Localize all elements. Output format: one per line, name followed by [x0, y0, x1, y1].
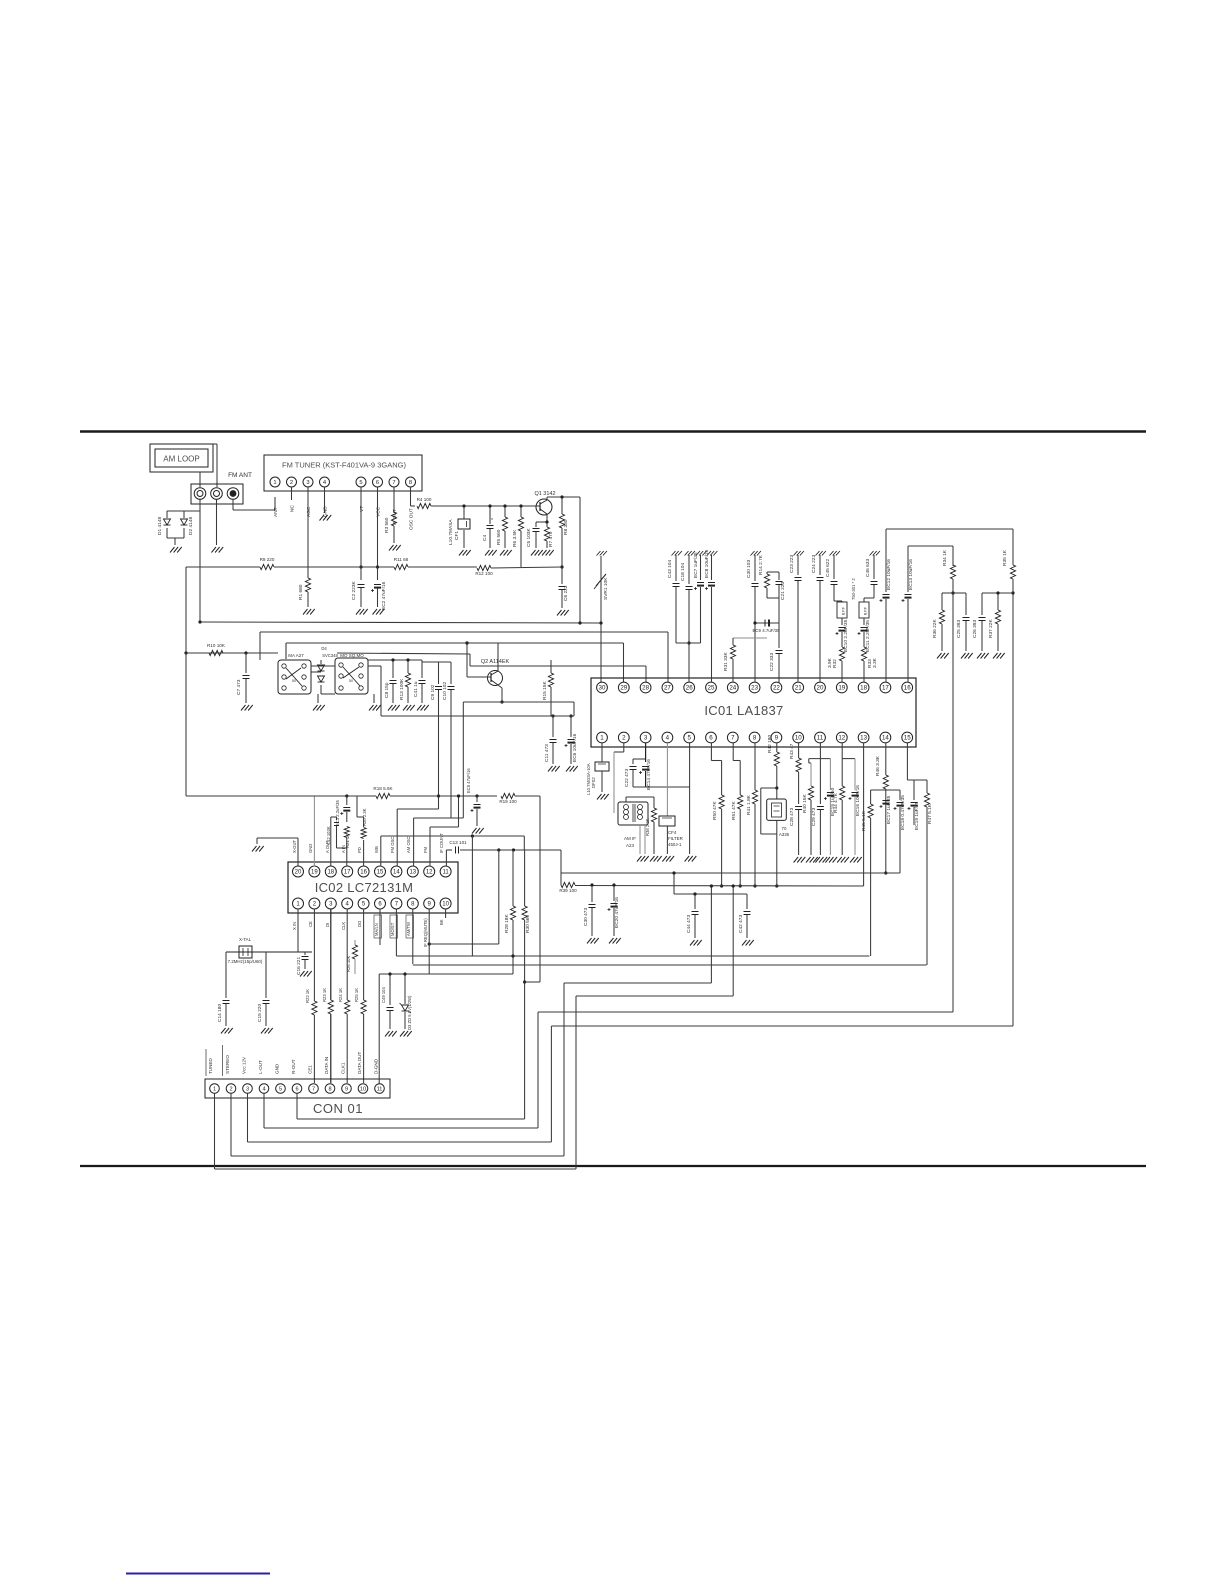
wire pin6 MA/LN — [379, 909, 381, 946]
IC01 pin 2 — [618, 732, 629, 743]
capacitor EC9 4.7uF/35 — [755, 622, 779, 624]
svg-text:AM LOOP: AM LOOP — [163, 455, 199, 464]
ground — [548, 766, 553, 772]
svg-text:R45 5.1K: R45 5.1K — [861, 810, 867, 831]
svg-text:MO SQ.MO: MO SQ.MO — [340, 653, 364, 658]
capacitor EC8 10uF/16 — [707, 551, 711, 556]
svg-text:FILTER: FILTER — [668, 836, 683, 841]
svg-text:R18 5.6K: R18 5.6K — [373, 786, 393, 791]
CON pin 6 — [292, 1084, 302, 1094]
IC01 pin 22 — [771, 682, 782, 693]
svg-text:14: 14 — [393, 870, 400, 876]
svg-text:CON 01: CON 01 — [313, 1101, 363, 1116]
ground — [690, 940, 695, 946]
capacitor EC11 2.2uF/35 — [863, 618, 865, 625]
svg-text:B.P.F: B.P.F — [864, 607, 868, 615]
svg-text:20: 20 — [295, 870, 302, 876]
IC02 pin 17 — [342, 866, 353, 877]
wire bus y956 — [396, 955, 869, 957]
capacitor C26 393 — [982, 592, 1013, 594]
ceramic resonator 70 A335 — [761, 787, 777, 789]
svg-text:C16 221: C16 221 — [296, 957, 302, 975]
wire bus B1 — [200, 622, 601, 623]
resistor R3 560 — [391, 512, 396, 526]
resistor R34 1K — [950, 565, 955, 579]
IC01 pin 27 — [662, 682, 673, 693]
svg-text:C7 473: C7 473 — [236, 679, 242, 695]
capacitor EC17 1uF/35 — [883, 800, 890, 802]
capacitor C41 1u — [421, 660, 423, 678]
svg-text:CLK1: CLK1 — [341, 1062, 346, 1074]
svg-text:D-GND: D-GND — [374, 1058, 379, 1074]
wire VT rail — [186, 566, 260, 568]
svg-text:R1 680: R1 680 — [298, 584, 304, 600]
capacitor C28 473 — [795, 806, 802, 808]
capacitor EC14 47uF/16 — [645, 743, 647, 762]
pin 6 — [373, 477, 383, 487]
capacitor C16 221 — [304, 952, 306, 955]
capacitor C49 104 — [389, 974, 391, 1005]
svg-text:C30 473: C30 473 — [583, 908, 589, 926]
ground — [373, 694, 375, 703]
capacitor EC2 47uF/16 — [374, 584, 381, 586]
IC02 pin 14 — [391, 866, 402, 877]
svg-text:20: 20 — [817, 685, 824, 692]
svg-text:AM OSC: AM OSC — [406, 836, 411, 853]
svg-text:R46 3.3K: R46 3.3K — [875, 755, 881, 776]
wire CON2 STEREO — [230, 1094, 232, 1157]
svg-text:EC19 1uF/35: EC19 1uF/35 — [914, 801, 920, 830]
svg-text:C28 473: C28 473 — [789, 808, 795, 826]
resistor R26 10K — [354, 940, 356, 945]
svg-text:EC13 10uF/16: EC13 10uF/16 — [908, 559, 914, 590]
wire pin5 DO — [363, 909, 365, 1001]
svg-text:R7 470: R7 470 — [548, 531, 554, 547]
ground — [320, 515, 325, 521]
wire pin19 up — [313, 796, 315, 867]
svg-text:PD: PD — [357, 847, 362, 853]
svg-text:VT: VT — [359, 506, 365, 512]
svg-text:C49 104: C49 104 — [381, 986, 386, 1003]
svg-text:R42 180: R42 180 — [767, 735, 773, 753]
svg-text:4: 4 — [666, 735, 670, 742]
svg-text:C15 220: C15 220 — [257, 1004, 263, 1022]
IC02 pin 1 — [293, 898, 304, 909]
wire pin5 VT — [360, 487, 362, 580]
wire — [498, 850, 500, 944]
svg-text:TUNED: TUNED — [208, 1057, 213, 1074]
resistor R30 560 — [524, 850, 526, 906]
wire pin11 tie — [809, 758, 831, 760]
wire cap top rail — [368, 659, 422, 661]
wire pin3 DI — [330, 909, 332, 1001]
svg-text:R4 100: R4 100 — [417, 497, 432, 502]
ground — [650, 856, 655, 862]
capacitor C18 104 — [685, 551, 689, 556]
IC01 pin 13 — [858, 732, 869, 743]
pin 3 — [303, 477, 313, 487]
IC IC01 LA1837 — [591, 678, 916, 747]
resistor R7 470 — [546, 522, 548, 527]
capacitor C22 333 — [778, 623, 780, 648]
ground — [587, 938, 592, 944]
svg-text:14: 14 — [882, 735, 889, 742]
ground — [417, 705, 422, 711]
svg-text:17: 17 — [882, 685, 889, 692]
capacitor C6 223 — [559, 586, 566, 588]
IC02 pin 19 — [309, 866, 320, 877]
svg-text:STEREO: STEREO — [225, 1055, 230, 1074]
svg-text:2: 2 — [290, 480, 293, 486]
svg-text:22: 22 — [773, 685, 780, 692]
svg-text:R13 100K: R13 100K — [399, 678, 405, 700]
capacitor C8 15p — [392, 660, 394, 678]
svg-text:5: 5 — [687, 735, 691, 742]
wire bus B3 — [286, 642, 624, 644]
wire pin7 IF OUT — [393, 487, 395, 512]
svg-text:X IN: X IN — [292, 922, 297, 930]
svg-text:R6 3.5K: R6 3.5K — [512, 529, 518, 547]
svg-text:D4: D4 — [321, 646, 327, 651]
wire R10 bus to pin28 — [337, 653, 470, 654]
wire Q1 collector — [546, 497, 548, 499]
ground — [557, 610, 562, 616]
svg-text:A23: A23 — [626, 843, 635, 848]
AM IF transformer AM IF A23 — [618, 802, 648, 825]
ground — [212, 547, 217, 553]
resistor R20 2.3K — [363, 840, 365, 867]
capacitor C22a 473 loop — [633, 758, 646, 760]
wire bus y974 — [379, 973, 513, 975]
svg-text:25: 25 — [708, 685, 715, 692]
svg-text:R32: R32 — [832, 659, 838, 668]
resistor R9 220 — [260, 564, 274, 569]
ground — [609, 938, 614, 944]
wire pin8 OSC OUT — [410, 487, 412, 506]
svg-text:C25 393: C25 393 — [956, 620, 962, 638]
svg-text:28: 28 — [642, 685, 649, 692]
svg-text:10: 10 — [442, 902, 449, 908]
svg-text:29: 29 — [620, 685, 627, 692]
ground — [685, 856, 690, 862]
ground — [485, 550, 490, 556]
svg-text:Q2 A114EK: Q2 A114EK — [481, 659, 510, 665]
ground — [403, 705, 408, 711]
svg-text:12: 12 — [426, 870, 433, 876]
wire AM antenna drop — [199, 511, 201, 622]
bandpass filter B.P.F — [834, 600, 842, 602]
pin 2 — [287, 477, 297, 487]
wire pin15 WB up — [380, 836, 382, 867]
svg-text:R24 1K: R24 1K — [338, 988, 343, 1002]
svg-text:R30 560: R30 560 — [525, 915, 531, 933]
wire bus y1012 — [538, 1011, 953, 1013]
capacitor C2 223K — [358, 584, 365, 586]
capacitor EC10 2.2uF/35 — [841, 618, 843, 625]
IC02 pin 12 — [424, 866, 435, 877]
capacitor C21 223 — [767, 571, 779, 573]
resistor R6 3.5K — [520, 506, 522, 517]
wire — [216, 499, 218, 545]
resistor R28 18K — [512, 850, 514, 906]
resistor R31 33K — [733, 637, 767, 639]
svg-text:24: 24 — [729, 685, 736, 692]
wire pin5 ground — [689, 743, 691, 854]
wire R10 bus — [186, 652, 278, 654]
ground — [794, 857, 799, 863]
svg-text:R51 47K: R51 47K — [731, 801, 737, 820]
svg-text:7: 7 — [392, 480, 395, 486]
wire pin14 FM OSC up — [396, 809, 398, 867]
capacitor EC16 10uF/16 — [854, 759, 856, 790]
svg-text:15: 15 — [904, 735, 911, 742]
wire CON11 D-GND — [378, 974, 380, 1084]
wire — [579, 497, 581, 623]
wire pin11 IF COUNT — [445, 850, 447, 867]
capacitor C10 102 — [450, 662, 452, 684]
wire loop EC12 to R35 — [886, 528, 1013, 530]
svg-text:23: 23 — [751, 685, 758, 692]
svg-text:8: 8 — [328, 1087, 331, 1093]
svg-text:R35 1K: R35 1K — [1002, 549, 1008, 566]
wire bus y1026 — [551, 1025, 1013, 1027]
wire C43 C18 EC7 tie — [676, 642, 701, 644]
wire — [466, 643, 468, 677]
svg-text:DATA OUT: DATA OUT — [357, 1052, 362, 1074]
svg-text:AM/TW: AM/TW — [406, 922, 411, 936]
svg-text:C26 393: C26 393 — [972, 620, 978, 638]
IC01 pin 7 — [727, 732, 738, 743]
pin 4 — [320, 477, 330, 487]
svg-text:MA/LN: MA/LN — [374, 923, 379, 936]
IC01 pin 26 — [684, 682, 695, 693]
svg-text:L10.7MASA: L10.7MASA — [448, 519, 454, 545]
ground — [825, 857, 830, 863]
capacitor C5 103K — [535, 522, 537, 527]
IC01 pin 23 — [749, 682, 760, 693]
svg-text:12: 12 — [838, 735, 845, 742]
capacitor EC18 0.47uF/35 — [899, 790, 901, 800]
IC02 pin 5 — [358, 898, 369, 909]
svg-text:X-OUT: X-OUT — [292, 840, 297, 853]
svg-text:Vcc 12V: Vcc 12V — [242, 1056, 247, 1074]
svg-text:15: 15 — [377, 870, 384, 876]
IC02 pin 13 — [407, 866, 418, 877]
svg-text:750-301 * 2: 750-301 * 2 — [851, 578, 856, 600]
FM tuner module FM TUNER (KST-F401VA-9 3GANG) — [264, 455, 422, 491]
wire left rail down — [185, 567, 187, 653]
svg-text:C22 333: C22 333 — [769, 653, 775, 671]
IC02 pin 18 — [325, 866, 336, 877]
IC01 pin 17 — [880, 682, 891, 693]
capacitor C45 622 — [830, 551, 834, 556]
capacitor C44 473 — [694, 894, 696, 909]
capacitor C7 473 — [245, 653, 247, 673]
svg-text:EC12 10uF/16: EC12 10uF/16 — [886, 559, 892, 590]
svg-text:1: 1 — [273, 480, 276, 486]
wire CON6 R-OUT — [296, 1094, 298, 1120]
capacitor EC7 1uF/35 — [696, 551, 700, 556]
wire pin9 IF REQ — [428, 909, 430, 975]
IC01 pin 24 — [727, 682, 738, 693]
svg-text:EC17 1uF/35: EC17 1uF/35 — [886, 795, 892, 824]
IC02 pin 3 — [325, 898, 336, 909]
svg-text:BK: BK — [439, 919, 444, 925]
wire pin2 stub — [291, 487, 293, 500]
wire pin4 CLK — [346, 909, 348, 1001]
svg-text:C18 104: C18 104 — [680, 563, 686, 581]
svg-text:R41 1.8K: R41 1.8K — [746, 794, 752, 815]
capacitor EC12 10uF/16 — [885, 529, 887, 592]
wire — [431, 505, 536, 507]
svg-text:R23 1K: R23 1K — [322, 988, 327, 1002]
svg-text:ANT: ANT — [273, 507, 279, 517]
resistor R41 1.8K — [754, 743, 756, 790]
wire — [560, 850, 562, 873]
svg-text:FM TUNER (KST-F401VA-9 3GANG): FM TUNER (KST-F401VA-9 3GANG) — [282, 461, 406, 470]
svg-text:MA A27: MA A27 — [288, 653, 304, 658]
bandpass filter B.P.F 2 — [864, 597, 874, 599]
capacitor C43 104 — [672, 551, 676, 556]
svg-text:R47 5.1K: R47 5.1K — [927, 803, 933, 824]
resistor R51 47K — [732, 743, 734, 761]
resistor R1 680 — [305, 578, 310, 592]
resistor R33 3.3K — [861, 647, 866, 661]
svg-text:3.3K: 3.3K — [872, 657, 878, 668]
resistor R4 100 — [417, 503, 431, 508]
crystal X-TAL 7.2MHz(15p/U60) — [226, 951, 312, 953]
IC02 pin 2 — [309, 898, 320, 909]
resistor R44 4.7K — [840, 786, 845, 800]
resistor R40 15K — [808, 759, 810, 763]
ground — [400, 1031, 405, 1037]
IC01 pin 21 — [793, 682, 804, 693]
ground — [472, 828, 477, 834]
ground — [662, 856, 667, 862]
svg-text:EC10 2.2uF/35: EC10 2.2uF/35 — [843, 619, 849, 652]
svg-text:R12 100: R12 100 — [475, 571, 493, 576]
svg-text:EC14 47uF/16: EC14 47uF/16 — [646, 759, 652, 790]
wire CON4 L-OUT — [263, 1094, 265, 1129]
wire pin14 tie — [871, 789, 900, 791]
resistor R45 5.1K — [870, 790, 872, 804]
svg-text:C22 473: C22 473 — [624, 769, 630, 787]
footer link mark — [126, 1573, 270, 1575]
svg-text:R44 4.7K: R44 4.7K — [833, 792, 839, 813]
svg-text:26: 26 — [686, 685, 693, 692]
svg-text:C10 102: C10 102 — [442, 682, 448, 700]
capacitor C4 * — [489, 506, 491, 524]
svg-text:R19 100: R19 100 — [499, 799, 517, 804]
svg-text:R31 33K: R31 33K — [723, 652, 729, 671]
svg-text:CF4: CF4 — [668, 830, 677, 835]
wire — [199, 499, 201, 511]
svg-text:R43 47: R43 47 — [789, 743, 795, 759]
capacitor EC5 47uF/16 — [475, 794, 478, 797]
ground — [531, 550, 536, 556]
svg-text:R11 68: R11 68 — [394, 557, 409, 562]
wire pin6 VCC — [377, 487, 379, 580]
svg-text:EC8 10uF/16: EC8 10uF/16 — [704, 549, 710, 578]
capacitor C14 180 — [225, 952, 227, 998]
svg-text:FM OSC: FM OSC — [390, 837, 395, 853]
ground — [252, 846, 257, 852]
svg-text:30: 30 — [599, 685, 606, 692]
svg-text:21: 21 — [795, 685, 802, 692]
wire stair x564 — [563, 983, 565, 1156]
svg-text:4: 4 — [262, 1087, 265, 1093]
capacitor C30a 473 — [591, 885, 593, 902]
ground — [542, 550, 547, 556]
IC01 pin 8 — [749, 732, 760, 743]
svg-text:1: 1 — [213, 1087, 216, 1093]
IC01 pin 1 — [597, 732, 608, 743]
svg-text:10: 10 — [795, 735, 802, 742]
svg-text:EC20 47uF/16: EC20 47uF/16 — [614, 897, 620, 928]
wire pin2 CE — [313, 909, 315, 1002]
svg-text:EC5 47uF/16: EC5 47uF/16 — [466, 768, 471, 793]
svg-text:C8 15p: C8 15p — [384, 682, 390, 698]
resistor R39 100 — [560, 873, 562, 885]
ground — [317, 694, 319, 703]
wire pin8 AM/TW — [412, 909, 414, 965]
svg-text:SVC348: SVC348 — [322, 653, 338, 658]
ceramic discriminator L10.7MGSA-10A DFS2 — [601, 743, 603, 762]
svg-text:19: 19 — [311, 870, 318, 876]
ground — [261, 1028, 266, 1034]
IC01 pin 6 — [706, 732, 717, 743]
wire bus B3b — [285, 643, 287, 659]
wire Q1 emitter — [546, 514, 548, 522]
capacitor EC13 10uF/16 — [907, 546, 909, 592]
svg-text:DO: DO — [357, 920, 362, 927]
ground — [170, 547, 175, 553]
svg-text:9: 9 — [775, 735, 779, 742]
IC01 pin 29 — [618, 682, 629, 693]
wire pin13 AM OSC up — [413, 818, 415, 867]
pin 7 — [389, 477, 399, 487]
IC01 pin 25 — [706, 682, 717, 693]
wire bus y996 — [576, 995, 733, 997]
wire AM IF leads — [625, 797, 627, 802]
svg-text:R5 560: R5 560 — [496, 529, 502, 545]
resistor R46 3.3K — [885, 743, 887, 775]
capacitor C9 102 — [438, 662, 440, 684]
wire pin1 X IN — [297, 909, 299, 953]
resistor R50 47K — [710, 743, 712, 761]
svg-text:R39 100: R39 100 — [559, 888, 577, 893]
svg-text:CE: CE — [308, 921, 313, 927]
capacitor C46 633 — [870, 551, 874, 556]
pin 1 — [270, 477, 280, 487]
CON pin 3 — [243, 1084, 253, 1094]
wire CON1 TUNED — [214, 1094, 216, 1170]
resistor R38 2.2K — [653, 805, 655, 808]
svg-text:MO/ST: MO/ST — [390, 922, 395, 936]
wire pin15 bend — [906, 743, 908, 780]
svg-text:C11 473: C11 473 — [544, 744, 550, 762]
wire pin20 to ground — [297, 838, 299, 867]
svg-text:R40 15K: R40 15K — [802, 794, 808, 813]
svg-text:17: 17 — [344, 870, 351, 876]
svg-text:R26 10K: R26 10K — [346, 955, 351, 972]
IC01 pin 9 — [771, 732, 782, 743]
CON pin 11 — [375, 1084, 385, 1094]
resistor R22 1K — [312, 1001, 317, 1015]
svg-text:C6 223: C6 223 — [563, 585, 569, 601]
svg-text:GND: GND — [308, 844, 313, 853]
ground — [356, 609, 361, 615]
